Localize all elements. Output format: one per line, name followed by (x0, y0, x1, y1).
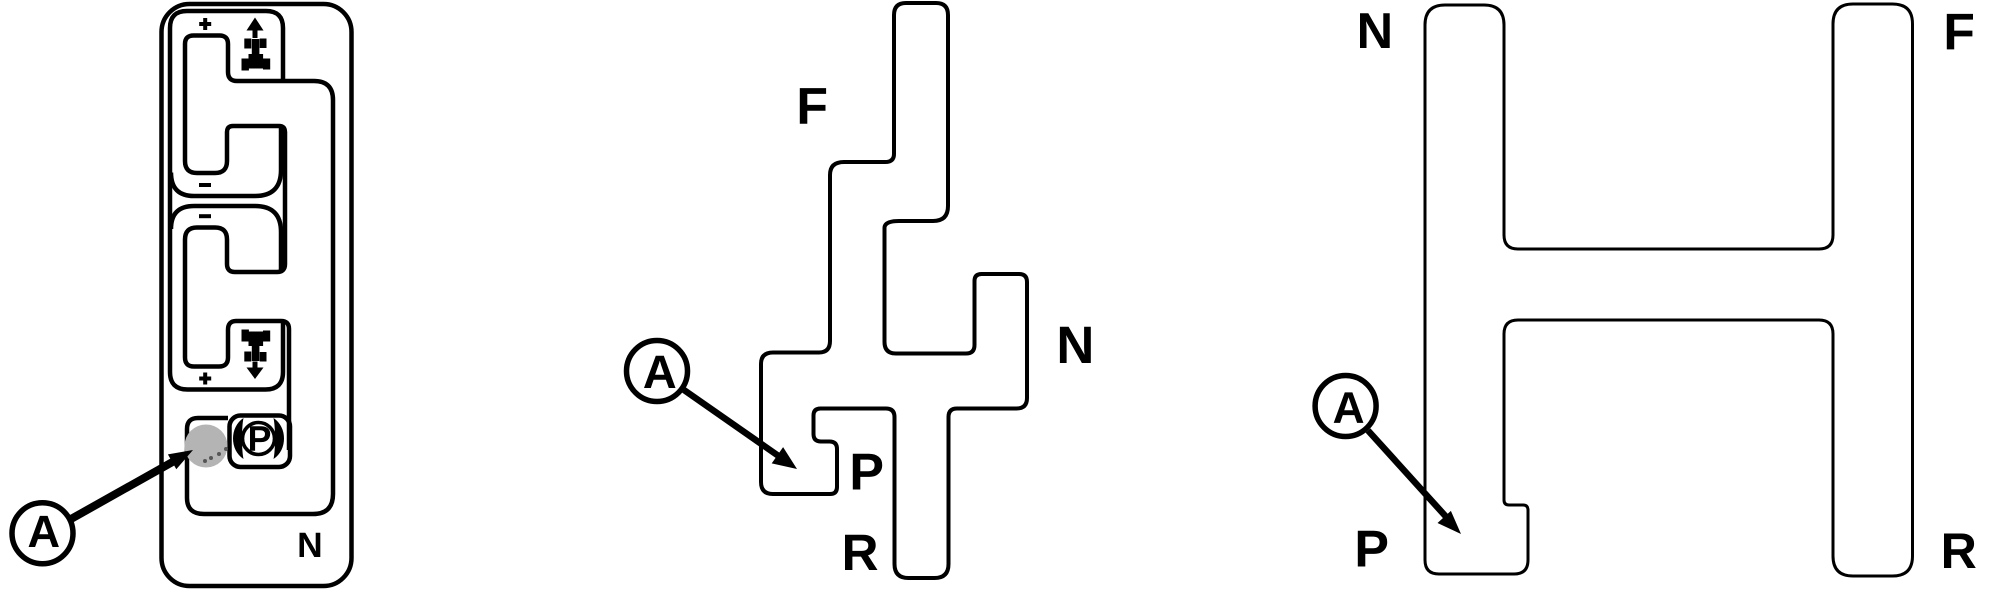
plus label bottom (199, 373, 211, 385)
label N (gate) (1060, 327, 1091, 363)
panel1 bottom edge (171, 127, 281, 196)
panel2 top edge (171, 206, 281, 271)
slot outer boundary (upper+lower panels joined left side) (170, 11, 283, 390)
label P (H gate) (1358, 531, 1387, 567)
label F (H gate) (1947, 14, 1973, 50)
slot inner winding boundary (185, 36, 333, 515)
lever position dot (gray) (185, 425, 228, 468)
minus label upper (199, 183, 211, 187)
plus label top (199, 18, 211, 30)
label R (H gate) (1944, 534, 1976, 569)
H gate outline (1425, 4, 1913, 576)
callout arrow (H gate) (1368, 431, 1461, 535)
callout A (console) (12, 503, 73, 564)
minus label lower (199, 214, 211, 218)
park symbol: circled P with rotation crescents (233, 418, 284, 459)
callout arrow (console) (71, 450, 193, 519)
tractor icon forward (up arrow) (242, 18, 271, 71)
callout A (H gate) (1315, 376, 1376, 437)
tractor icon reverse (down arrow) (242, 330, 271, 380)
dotted detent marks (203, 447, 228, 463)
label N (console) (300, 533, 321, 557)
label F (gate) (800, 88, 826, 124)
park symbol box (230, 416, 291, 468)
callout arrow (gate) (684, 390, 797, 469)
label N (H gate) (1360, 13, 1390, 48)
console outer border (162, 4, 352, 586)
label R (gate) (845, 535, 878, 570)
callout A (gate) (627, 341, 688, 402)
shift gate outline (761, 3, 1027, 578)
label P (gate) (853, 454, 882, 490)
